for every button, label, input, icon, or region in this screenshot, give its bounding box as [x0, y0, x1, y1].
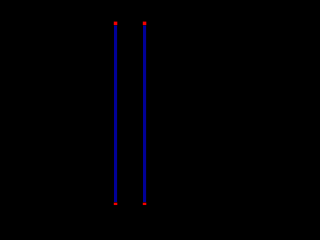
marker top of line 1 (red square) — [114, 22, 118, 26]
marker top of line 2 (red square) — [143, 22, 147, 26]
marker bottom of line 1 (red square, clipped) — [114, 203, 118, 205]
marker bottom of line 2 (red square, clipped) — [143, 203, 147, 205]
data line 1 (left vertical blue line) — [114, 26, 117, 203]
data line 2 (right vertical blue line) — [143, 26, 146, 203]
